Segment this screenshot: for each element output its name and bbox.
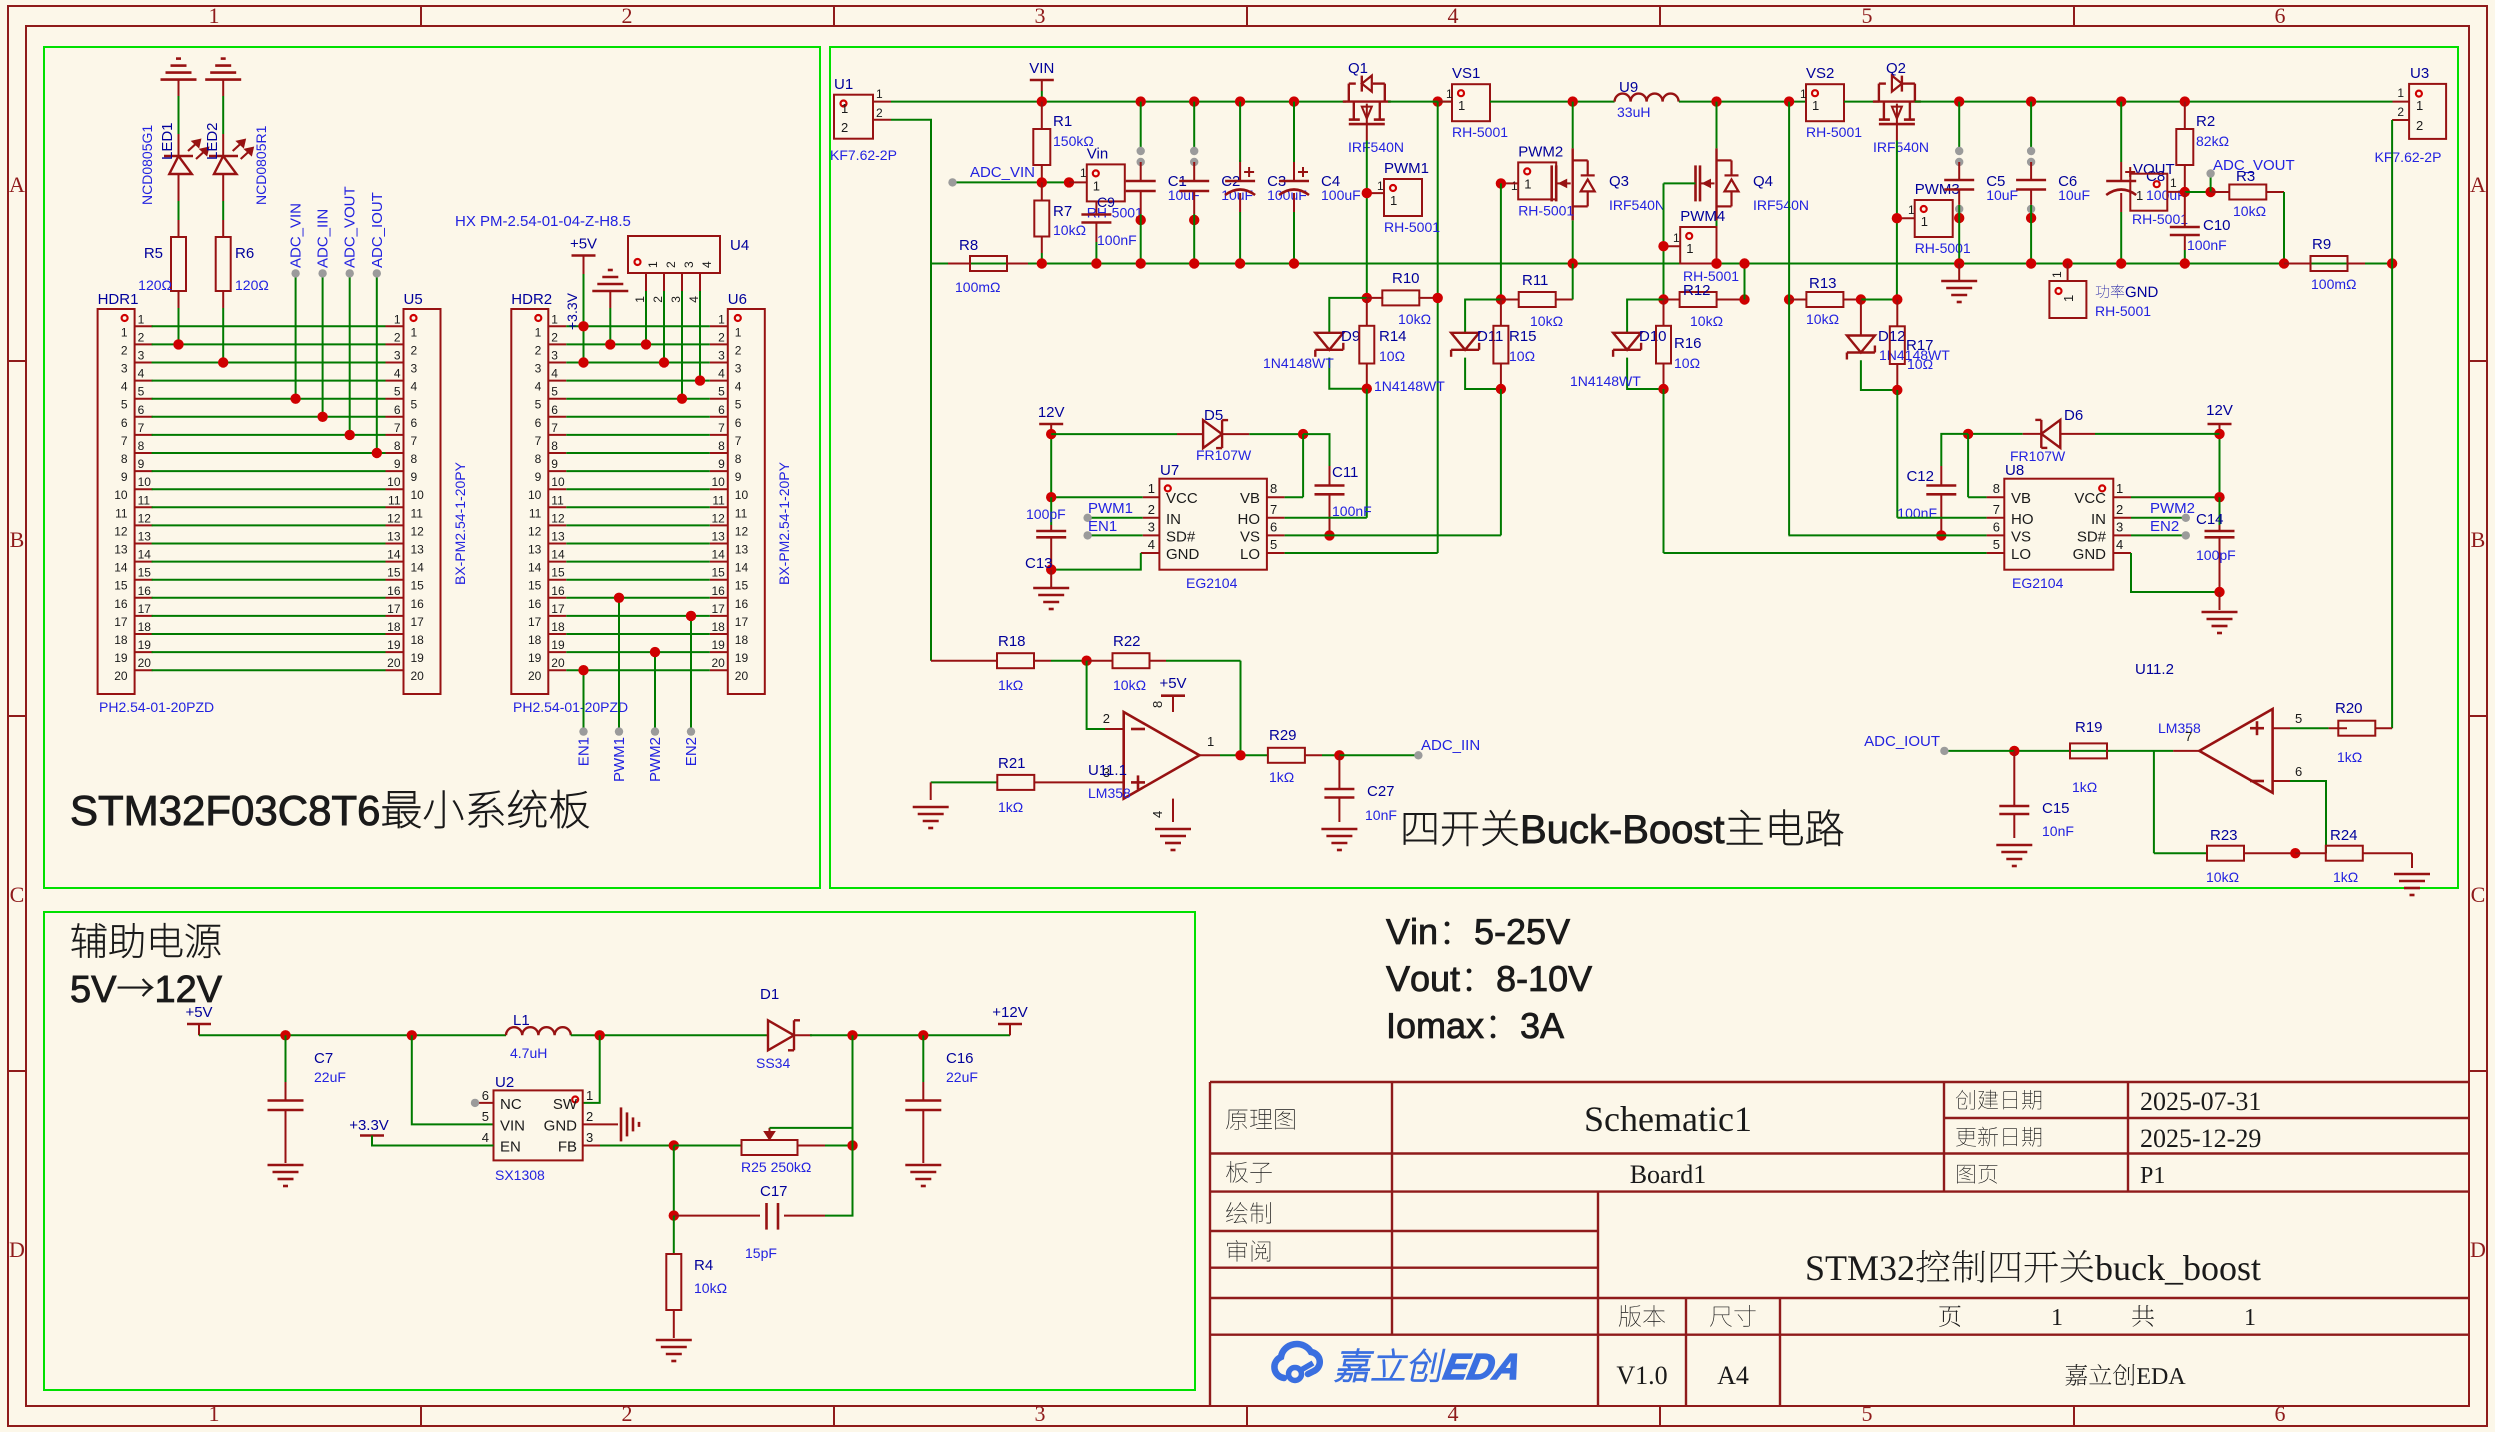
- svg-text:14: 14: [711, 548, 725, 562]
- svg-text:4: 4: [411, 380, 418, 394]
- svg-text:4: 4: [1150, 811, 1165, 818]
- resistor R19: [2070, 743, 2107, 758]
- svg-text:2: 2: [2416, 118, 2423, 133]
- svg-text:R9: R9: [2312, 236, 2331, 253]
- svg-text:100nF: 100nF: [1097, 232, 1137, 248]
- node output: [1235, 750, 1245, 760]
- svg-text:IRF540N: IRF540N: [1873, 139, 1929, 155]
- node VIN rail: [1037, 96, 1047, 106]
- wire inverting input: [1087, 661, 1105, 729]
- svg-text:19: 19: [735, 651, 749, 665]
- svg-text:PWM4: PWM4: [1680, 208, 1725, 225]
- svg-text:U4: U4: [730, 237, 749, 254]
- svg-text:VS: VS: [1240, 528, 1260, 545]
- title block text 图页: [1957, 1165, 1997, 1184]
- wire R17 node down to HO row: [1896, 390, 1898, 518]
- svg-text:IRF540N: IRF540N: [1348, 139, 1404, 155]
- wire U4 pin1 to pin2 row: [645, 291, 647, 344]
- ground below R21: [930, 782, 932, 800]
- svg-text:17: 17: [114, 615, 128, 629]
- svg-text:7: 7: [551, 421, 558, 435]
- ground below C27: [1321, 828, 1357, 831]
- svg-text:D: D: [9, 1237, 25, 1262]
- svg-text:RH-5001: RH-5001: [1087, 204, 1143, 220]
- svg-text:1kΩ: 1kΩ: [2333, 869, 2358, 885]
- svg-text:4: 4: [735, 380, 742, 394]
- svg-text:4: 4: [482, 1130, 489, 1145]
- op-amp U11.2 LM358: [2199, 709, 2272, 793]
- svg-text:10kΩ: 10kΩ: [1398, 311, 1431, 327]
- svg-text:R13: R13: [1809, 275, 1837, 292]
- svg-text:16: 16: [387, 584, 401, 598]
- node PWM2 pin: [1496, 178, 1506, 188]
- svg-text:4: 4: [394, 367, 401, 381]
- svg-text:3: 3: [2116, 519, 2123, 534]
- svg-text:SX1308: SX1308: [495, 1167, 545, 1183]
- svg-text:12: 12: [711, 511, 725, 525]
- svg-text:5: 5: [1862, 1401, 1873, 1426]
- svg-text:8: 8: [1150, 701, 1165, 708]
- wire R22 right down to output: [1240, 661, 1242, 756]
- svg-text:5: 5: [735, 398, 742, 412]
- svg-text:20: 20: [551, 656, 565, 670]
- wire ground to pin2: [609, 308, 611, 344]
- svg-text:PWM1: PWM1: [1384, 160, 1429, 177]
- capacitor C11: [1329, 466, 1331, 486]
- svg-text:20: 20: [711, 656, 725, 670]
- svg-text:19: 19: [528, 651, 542, 665]
- svg-text:120Ω: 120Ω: [235, 277, 269, 293]
- svg-text:11: 11: [735, 506, 748, 520]
- svg-text:EN2: EN2: [683, 737, 700, 766]
- U8 pin3 SD# wire EN2: [2113, 534, 2131, 536]
- svg-text:B: B: [2471, 527, 2486, 552]
- resistor R16: [1663, 300, 1665, 326]
- svg-text:2: 2: [586, 1109, 593, 1124]
- node R18/R22: [1081, 656, 1091, 666]
- logo JLCEDA: [1274, 1344, 1319, 1378]
- resistor R8: [948, 263, 970, 265]
- svg-text:R15: R15: [1509, 328, 1537, 345]
- svg-text:6: 6: [535, 416, 542, 430]
- node PWM4 pin: [1658, 241, 1668, 251]
- svg-text:VCC: VCC: [1166, 490, 1198, 507]
- svg-text:16: 16: [528, 597, 542, 611]
- svg-text:5: 5: [121, 398, 128, 412]
- svg-text:6: 6: [2275, 1401, 2286, 1426]
- wire R2 node to R3: [2185, 191, 2211, 193]
- IC U2 SX1308: [494, 1090, 583, 1160]
- svg-text:17: 17: [138, 602, 152, 616]
- svg-text:15: 15: [711, 566, 725, 580]
- svg-text:1: 1: [1390, 193, 1397, 208]
- U7 pin4 GND wire: [1141, 552, 1160, 554]
- wire rail Q1 to VS1: [1388, 101, 1452, 103]
- ground below rail at C5: [1958, 264, 1960, 282]
- connector PWM3 RH-5001: [1915, 200, 1953, 237]
- svg-text:2: 2: [735, 343, 742, 357]
- svg-text:8: 8: [551, 439, 558, 453]
- svg-text:17: 17: [551, 602, 565, 616]
- node C16: [918, 1030, 928, 1040]
- node SW col: [595, 1030, 605, 1040]
- svg-text:B: B: [10, 527, 25, 552]
- svg-text:1: 1: [1812, 98, 1819, 113]
- svg-text:17: 17: [411, 615, 425, 629]
- ground below C13: [1050, 570, 1052, 588]
- svg-text:8: 8: [394, 439, 401, 453]
- svg-text:2: 2: [841, 120, 848, 135]
- svg-text:Vin: Vin: [1087, 145, 1108, 162]
- svg-text:82kΩ: 82kΩ: [2196, 133, 2229, 149]
- svg-text:3: 3: [1035, 1401, 1046, 1426]
- svg-text:5: 5: [718, 385, 725, 399]
- svg-text:1: 1: [1524, 176, 1531, 191]
- title block text 嘉立创EDA bottom: [2065, 1364, 2185, 1386]
- wire Q4 gate to PWM4 column: [1664, 182, 1696, 184]
- title block text 绘制: [1226, 1202, 1271, 1224]
- svg-text:VB: VB: [1240, 490, 1260, 507]
- svg-text:15: 15: [411, 579, 425, 593]
- svg-text:C17: C17: [760, 1183, 788, 1200]
- wire R12 right up to rail: [1744, 264, 1746, 300]
- net label EN1 stub below: [583, 670, 585, 731]
- svg-text:Q2: Q2: [1886, 60, 1906, 77]
- net label ADC_IOUT stub: [376, 273, 378, 453]
- wire 12V column to VCC: [2219, 434, 2221, 497]
- resistor R22: [1087, 660, 1114, 662]
- svg-text:2: 2: [394, 330, 401, 344]
- svg-text:D: D: [2470, 1237, 2486, 1262]
- svg-text:33uH: 33uH: [1617, 104, 1650, 120]
- svg-text:22uF: 22uF: [946, 1069, 978, 1085]
- svg-text:1: 1: [2050, 271, 2064, 278]
- title block table: [1210, 1081, 2469, 1083]
- svg-text:2: 2: [121, 343, 128, 357]
- svg-text:8: 8: [138, 439, 145, 453]
- node D1 right: [847, 1030, 857, 1040]
- svg-text:U7: U7: [1160, 462, 1179, 479]
- svg-text:VS2: VS2: [1806, 65, 1834, 82]
- node L1 left: [407, 1030, 417, 1040]
- svg-text:KF7.62-2P: KF7.62-2P: [2375, 149, 2442, 165]
- svg-text:18: 18: [138, 620, 152, 634]
- svg-text:2: 2: [651, 296, 665, 303]
- svg-text:16: 16: [551, 584, 565, 598]
- svg-text:14: 14: [138, 548, 152, 562]
- power flag +5V aux: [187, 1023, 211, 1026]
- svg-text:2: 2: [664, 261, 678, 268]
- svg-text:5: 5: [394, 385, 401, 399]
- U7 pin7 HO wire: [1267, 517, 1285, 519]
- wire U1 pin2 to lower rail: [891, 120, 931, 264]
- resistor R21: [931, 781, 998, 783]
- diode D6 FR107W: [1968, 433, 2023, 435]
- svg-text:13: 13: [551, 530, 565, 544]
- svg-text:R6: R6: [235, 245, 254, 262]
- svg-text:10kΩ: 10kΩ: [694, 1280, 727, 1296]
- svg-text:1kΩ: 1kΩ: [1269, 769, 1294, 785]
- U8 pin1 VCC wire: [2113, 496, 2131, 498]
- svg-text:10Ω: 10Ω: [1379, 348, 1405, 364]
- svg-text:RH-5001: RH-5001: [2132, 211, 2188, 227]
- svg-text:ADC_IOUT: ADC_IOUT: [369, 192, 386, 268]
- svg-text:3: 3: [1148, 519, 1155, 534]
- svg-text:SW: SW: [553, 1096, 578, 1113]
- wire Q1 source down: [1366, 141, 1368, 298]
- svg-text:R19: R19: [2075, 719, 2103, 736]
- capacitor C17: [673, 1146, 675, 1216]
- node R1/R7: [1037, 177, 1047, 187]
- svg-text:18: 18: [735, 633, 749, 647]
- node Vin pin: [1064, 177, 1074, 187]
- svg-text:13: 13: [711, 530, 725, 544]
- svg-text:16: 16: [735, 597, 749, 611]
- node R15 bottom: [1496, 384, 1506, 394]
- svg-text:2: 2: [718, 330, 725, 344]
- connector U3: [2409, 84, 2446, 139]
- wire 12V to D5 and VCC: [1050, 434, 1052, 497]
- wire rail VS1 to U9: [1490, 101, 1615, 103]
- power flag VIN: [1030, 79, 1054, 82]
- wire FB to R25: [674, 1145, 742, 1147]
- diode D5 FR107W: [1051, 433, 1177, 435]
- svg-text:18: 18: [387, 620, 401, 634]
- resistor R9: [2279, 258, 2289, 268]
- svg-text:6: 6: [1993, 519, 2000, 534]
- resistor R13: [1784, 294, 1794, 304]
- svg-text:4: 4: [718, 367, 725, 381]
- wire LED2-R6: [222, 201, 224, 220]
- capacitor C16: [922, 1035, 924, 1082]
- svg-text:3: 3: [682, 261, 696, 268]
- svg-text:U3: U3: [2410, 65, 2429, 82]
- resistor R4: [673, 1216, 675, 1254]
- svg-text:11: 11: [388, 493, 401, 507]
- svg-text:C10: C10: [2203, 217, 2231, 234]
- svg-text:1: 1: [876, 87, 883, 101]
- svg-text:RH-5001: RH-5001: [1384, 219, 1440, 235]
- diode D9 1N4148WT: [1329, 298, 1367, 333]
- title block text 板子: [1226, 1161, 1272, 1183]
- svg-text:16: 16: [138, 584, 152, 598]
- wires HDR2 to U6: [566, 325, 710, 327]
- U8 pin5 LO wire: [1987, 552, 2005, 554]
- svg-text:5: 5: [1993, 537, 2000, 552]
- svg-text:ADC_IIN: ADC_IIN: [315, 209, 332, 268]
- svg-text:2: 2: [411, 343, 418, 357]
- svg-text:3: 3: [394, 349, 401, 363]
- svg-text:KF7.62-2P: KF7.62-2P: [830, 147, 897, 163]
- power flag 12V left: [1039, 423, 1063, 426]
- svg-text:C15: C15: [2042, 800, 2070, 817]
- svg-text:14: 14: [735, 561, 749, 575]
- capacitor C14: [2219, 497, 2221, 525]
- svg-text:1: 1: [138, 312, 145, 326]
- svg-text:R17: R17: [1906, 337, 1934, 354]
- node PWM3 pin: [1892, 213, 1902, 223]
- wire R6 to HDR1 pin3: [222, 291, 224, 308]
- svg-text:120Ω: 120Ω: [138, 277, 172, 293]
- title block text 审阅: [1227, 1240, 1270, 1262]
- ground below R24: [2411, 853, 2413, 868]
- svg-text:4: 4: [1148, 537, 1155, 552]
- net label ADC_VIN: [953, 181, 1070, 183]
- svg-text:9: 9: [735, 470, 742, 484]
- connector U6: [728, 309, 765, 694]
- svg-text:D9: D9: [1341, 328, 1360, 345]
- svg-text:11: 11: [529, 506, 542, 520]
- resistor R20: [2290, 727, 2329, 729]
- resistor R17: [1896, 300, 1898, 327]
- svg-text:1: 1: [1686, 241, 1693, 256]
- U7 pin3 SD# wire EN1: [1143, 534, 1160, 536]
- connector HDR1: [98, 309, 135, 694]
- svg-text:A: A: [2470, 172, 2486, 197]
- svg-text:R14: R14: [1379, 328, 1407, 345]
- svg-text:8: 8: [1993, 481, 2000, 496]
- svg-text:100nF: 100nF: [1332, 503, 1372, 519]
- wire top rail segment 1: [891, 101, 1346, 103]
- svg-text:R16: R16: [1674, 335, 1702, 352]
- svg-text:2: 2: [535, 343, 542, 357]
- svg-text:VIN: VIN: [1029, 60, 1054, 77]
- svg-text:1: 1: [1377, 179, 1384, 193]
- svg-text:9: 9: [121, 470, 128, 484]
- power flag +12V: [998, 1023, 1022, 1026]
- svg-text:8: 8: [735, 452, 742, 466]
- U7 pin6 VS wire: [1267, 534, 1285, 536]
- green block frame: STM32 minimal system board: [44, 47, 820, 888]
- svg-text:9: 9: [551, 457, 558, 471]
- svg-text:+5V: +5V: [1159, 675, 1186, 692]
- svg-text:HO: HO: [2011, 511, 2034, 528]
- svg-text:2: 2: [1103, 711, 1110, 726]
- svg-text:100nF: 100nF: [2187, 237, 2227, 253]
- svg-text:U2: U2: [495, 1074, 514, 1091]
- svg-text:15: 15: [114, 579, 128, 593]
- wire R15 node down to VS row: [1500, 389, 1502, 535]
- svg-text:1: 1: [2170, 176, 2177, 190]
- svg-text:R7: R7: [1053, 203, 1072, 220]
- title text auxiliary power: [72, 923, 220, 957]
- wire VB column: [1302, 434, 1304, 497]
- svg-text:12: 12: [411, 524, 425, 538]
- svg-text:GND: GND: [2073, 546, 2107, 563]
- svg-text:9: 9: [718, 457, 725, 471]
- node R16 bottom: [1658, 384, 1668, 394]
- svg-text:6: 6: [482, 1088, 489, 1103]
- node Q4 source: [1711, 258, 1721, 268]
- svg-text:V1.0: V1.0: [1616, 1361, 1667, 1390]
- svg-text:14: 14: [411, 561, 425, 575]
- svg-text:ADC_VOUT: ADC_VOUT: [342, 186, 359, 268]
- ground below C14: [2219, 592, 2221, 610]
- capacitor C9: [1095, 201, 1097, 215]
- title block text 创建日期: [1956, 1090, 2041, 1110]
- U8 pin8 VB wire: [1987, 496, 2005, 498]
- svg-text:9: 9: [535, 470, 542, 484]
- node +3.3V pin3: [578, 357, 588, 367]
- svg-text:IN: IN: [1166, 511, 1181, 528]
- svg-text:R29: R29: [1269, 727, 1297, 744]
- svg-text:EN1: EN1: [576, 737, 593, 766]
- svg-text:100mΩ: 100mΩ: [955, 279, 1001, 295]
- svg-text:100pF: 100pF: [2196, 547, 2236, 563]
- connector VS1 RH-5001: [1452, 84, 1490, 121]
- node rail Q4 col: [1711, 96, 1721, 106]
- wire rail col to R13: [1788, 102, 1790, 300]
- svg-text:10: 10: [387, 475, 401, 489]
- svg-text:5: 5: [551, 385, 558, 399]
- transistor Q2 IRF540N: [1873, 100, 1921, 102]
- ground above LED2: [205, 78, 241, 81]
- wire D6 node to C12: [1941, 434, 1968, 466]
- net label ADC_VIN stub: [295, 273, 297, 398]
- svg-text:VS: VS: [2011, 528, 2031, 545]
- svg-text:EG2104: EG2104: [2012, 575, 2064, 591]
- svg-text:LO: LO: [2011, 546, 2031, 563]
- svg-text:4: 4: [700, 261, 714, 268]
- wire rail VS2 to Q2: [1844, 101, 1879, 103]
- resistor R18: [930, 264, 932, 661]
- svg-text:EG2104: EG2104: [1186, 575, 1238, 591]
- svg-text:ADC_IIN: ADC_IIN: [1421, 737, 1480, 754]
- svg-text:3: 3: [586, 1130, 593, 1145]
- svg-text:1: 1: [1458, 98, 1465, 113]
- svg-text:1: 1: [2116, 481, 2123, 496]
- svg-text:BX-PM2.54-1-20PY: BX-PM2.54-1-20PY: [452, 461, 468, 585]
- wire R7 to lower rail: [1041, 237, 1043, 254]
- svg-text:R23: R23: [2210, 827, 2238, 844]
- wire LED1-R5: [178, 201, 180, 220]
- svg-text:3: 3: [1035, 3, 1046, 28]
- svg-text:16: 16: [711, 584, 725, 598]
- svg-text:6: 6: [735, 416, 742, 430]
- svg-text:1: 1: [1148, 481, 1155, 496]
- svg-text:6: 6: [2295, 764, 2302, 779]
- U11.1 pin8 +5V: [1172, 696, 1174, 712]
- net label ADC_VOUT: [2210, 176, 2212, 192]
- svg-text:10kΩ: 10kΩ: [2233, 203, 2266, 219]
- wire col 1789 down to VS: [1788, 300, 1790, 536]
- U11.2 output wire: [2173, 750, 2199, 752]
- ground below R4: [656, 1339, 692, 1342]
- wire output down to R23: [2153, 751, 2155, 853]
- svg-text:SD#: SD#: [2077, 528, 2107, 545]
- connector PWM4 RH-5001: [1680, 227, 1716, 264]
- svg-text:R11: R11: [1522, 272, 1548, 289]
- U11.1 pin4 ground: [1172, 799, 1174, 822]
- wire D5 node to C11: [1303, 434, 1329, 466]
- wire LED2 ground to LED2: [222, 96, 224, 134]
- svg-text:10: 10: [138, 475, 152, 489]
- svg-text:U8: U8: [2005, 462, 2024, 479]
- svg-text:7: 7: [1993, 502, 2000, 517]
- LED LED2: [222, 134, 224, 156]
- svg-text:9: 9: [138, 457, 145, 471]
- svg-text:10: 10: [711, 475, 725, 489]
- net label ADC_IIN stub: [322, 273, 324, 416]
- node ADC_VOUT: [2205, 187, 2215, 197]
- svg-text:2: 2: [2116, 502, 2123, 517]
- svg-text:EN1: EN1: [1088, 518, 1117, 535]
- svg-text:100uF: 100uF: [1321, 187, 1361, 203]
- svg-text:10: 10: [411, 488, 425, 502]
- resistor R15: [1500, 300, 1502, 326]
- svg-text:1N4148WT: 1N4148WT: [1374, 378, 1445, 394]
- svg-text:18: 18: [114, 633, 128, 647]
